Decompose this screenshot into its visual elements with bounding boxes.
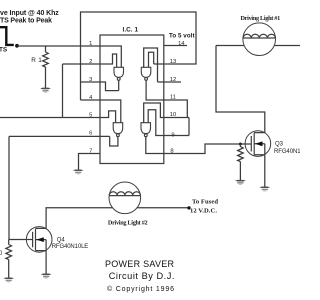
- svg-text:TS Peak to Peak: TS Peak to Peak: [0, 18, 52, 25]
- input source square-wave symbol: [0, 27, 14, 45]
- wire net pins 3-4-13 : vertical riser, top wire, down to pin 13: [81, 12, 197, 100]
- wire Q3 source to ground: [264, 155, 266, 187]
- transistor Q3 (N-MOSFET): [245, 131, 271, 157]
- gate U1C (NAND, pointing down): [113, 123, 123, 137]
- wire lamp1 left lead: [216, 45, 244, 47]
- wire pin 12 stub: [164, 81, 181, 83]
- wire gate U1A output stub: [118, 80, 120, 90]
- wire Q3 drain to lamp 1: [216, 46, 265, 133]
- wire gate U1B output to pin 11: [146, 80, 164, 100]
- wire pin 13 to pin 12 (inside IC): [158, 64, 164, 82]
- svg-text:Q4: Q4: [57, 238, 66, 244]
- svg-text:11: 11: [170, 94, 176, 100]
- gate U1D (NAND, pointing down): [141, 123, 151, 137]
- lamp Driving Light #2: [109, 182, 141, 214]
- svg-text:8: 8: [170, 148, 173, 154]
- wire pin 3 row: [81, 81, 101, 83]
- svg-text:Q3: Q3: [275, 141, 284, 147]
- wire pin 3 to gate U1A output (inside IC): [100, 82, 119, 91]
- wire lamp2 right lead to supply node: [137, 207, 189, 209]
- svg-text:12 V.D.C.: 12 V.D.C.: [190, 208, 217, 215]
- svg-text:6: 6: [89, 130, 92, 136]
- wire pin 5 row (net to left edge): [0, 117, 100, 119]
- wire gate U1C output to pin 6: [110, 136, 118, 146]
- resistor R2 (Q3 gate pulldown): [238, 144, 244, 180]
- lamp Driving Light #1: [243, 23, 276, 56]
- ground (below R1): [40, 88, 51, 93]
- ground (Q3 source): [259, 186, 270, 191]
- svg-text:2: 2: [89, 59, 92, 65]
- wire pin 10 to pin 9 external loop: [164, 118, 189, 136]
- svg-text:RFG40N10LE: RFG40N10LE: [52, 244, 89, 250]
- svg-text:R 1: R 1: [31, 57, 42, 64]
- wire pin 5 to gate U1C input (inside IC): [100, 111, 116, 123]
- resistor R1: [43, 46, 49, 88]
- svg-text:POWER SAVER: POWER SAVER: [105, 259, 175, 269]
- wire pin 8 to Q3 gate: [164, 144, 252, 154]
- svg-text:To 5 volt: To 5 volt: [169, 33, 195, 40]
- svg-text:ve Input @ 40 Khz: ve Input @ 40 Khz: [0, 10, 59, 17]
- wire Q4 drain to lamp 2: [46, 208, 112, 229]
- svg-text:7: 7: [89, 148, 92, 154]
- wire Q4 source to ground: [45, 251, 47, 274]
- node supply dot (to fused 12 VDC): [187, 206, 190, 209]
- wire pin 13 to gate U1B inputs (inside IC): [144, 48, 164, 67]
- wire pin 2 row: [63, 63, 101, 65]
- node junction dot at Q3 gate resistor: [239, 143, 242, 146]
- ground (Q4 source): [41, 274, 52, 279]
- wire gate U1D output to pin 8: [146, 137, 164, 154]
- transistor Q4 (N-MOSFET): [26, 227, 52, 253]
- wire pin 4 to gate U1C input (inside IC): [100, 100, 121, 123]
- wire pin 14 stub (to 5 volt): [164, 45, 187, 47]
- svg-text:Driving Light #1: Driving Light #1: [241, 15, 281, 22]
- wire pin 6 down to Q4 gate: [9, 136, 33, 239]
- svg-text:1: 1: [89, 41, 92, 47]
- node input junction dot: [15, 44, 19, 48]
- svg-text:RFG40N10LE: RFG40N10LE: [274, 149, 300, 155]
- svg-text:0: 0: [0, 251, 3, 257]
- wire pin 10 to gate U1D input (inside IC): [144, 103, 164, 123]
- svg-text:I.C. 1: I.C. 1: [123, 27, 139, 34]
- IC 1 body: [100, 35, 164, 164]
- svg-text:9: 9: [171, 132, 174, 138]
- gate U1A (NAND, pointing down): [114, 67, 124, 80]
- wire pin 2 to pin 5 vertical: [62, 64, 64, 118]
- wire pin 7 to ground: [79, 154, 101, 170]
- svg-text:Circuit By D.J.: Circuit By D.J.: [109, 271, 175, 281]
- ground (Q4 gate resistor): [3, 277, 14, 282]
- wire pin 11 to pin 10 external loop: [164, 100, 189, 118]
- svg-text:12: 12: [170, 77, 176, 83]
- ground (IC pin 7): [73, 169, 84, 174]
- wire lamp1 right lead (exits right edge): [274, 45, 300, 47]
- svg-text:5: 5: [89, 112, 92, 118]
- svg-text:© Copyright 1996: © Copyright 1996: [107, 285, 174, 293]
- gate U1B (NAND, pointing down): [141, 67, 151, 80]
- ground (Q3 gate resistor): [235, 180, 246, 185]
- svg-text:TS: TS: [0, 47, 8, 54]
- svg-text:3: 3: [89, 77, 92, 83]
- wire pin 6 row: [9, 135, 110, 137]
- svg-text:To Fused: To Fused: [192, 199, 218, 206]
- wire pin 1 to gate U1A input: [100, 46, 121, 67]
- svg-text:Driving Light #2: Driving Light #2: [108, 219, 148, 226]
- wire pin 4 row: [81, 99, 101, 101]
- resistor R3 (Q4 gate pulldown): [6, 240, 12, 278]
- wire input to pin 1: [17, 45, 100, 47]
- wire pin 2 to gate U1A input (inside IC): [100, 54, 117, 67]
- svg-text:10: 10: [170, 112, 176, 118]
- wire pin 9 to gate U1D input (inside IC): [148, 110, 164, 136]
- svg-text:14: 14: [178, 41, 185, 47]
- svg-text:13: 13: [170, 59, 176, 65]
